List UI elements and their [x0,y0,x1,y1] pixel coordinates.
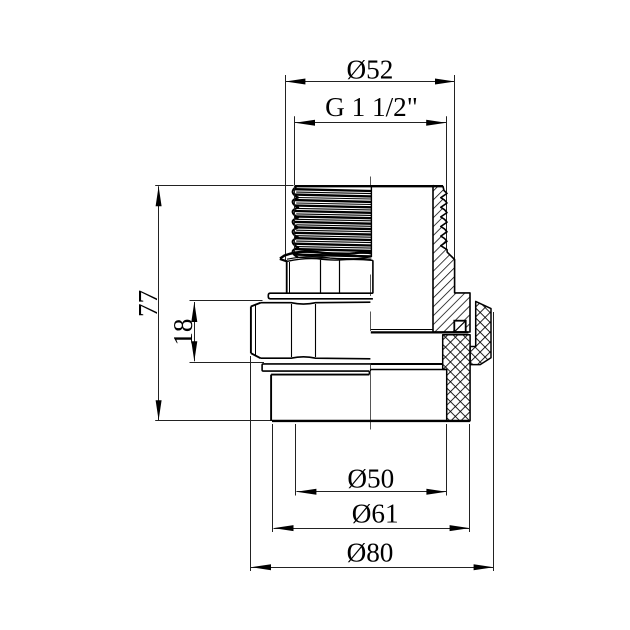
svg-text:Ø50: Ø50 [347,463,394,493]
svg-text:Ø80: Ø80 [347,538,394,568]
svg-text:Ø52: Ø52 [346,54,393,84]
svg-text:Ø61: Ø61 [352,499,399,529]
svg-text:G 1 1/2": G 1 1/2" [325,92,418,122]
